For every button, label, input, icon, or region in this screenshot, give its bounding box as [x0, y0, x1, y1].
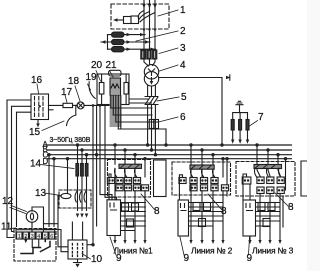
control fuse 17 [63, 103, 73, 107]
svg-text:13: 13 [35, 188, 47, 199]
wire: link to meter box 9 [179, 175, 182, 200]
section rectangle R1 [154, 160, 167, 197]
svg-text:8: 8 [154, 206, 160, 217]
meter 12 [26, 211, 38, 223]
left control wires [7, 100, 31, 238]
CT window slits [143, 52, 155, 58]
line 1 outgoing arrows [113, 240, 146, 244]
lamp 18 [77, 102, 84, 109]
breaker bar [119, 164, 142, 168]
current transformers 3 [141, 50, 157, 59]
svg-text:10: 10 [91, 254, 103, 265]
svg-text:18: 18 [68, 76, 80, 87]
wire: three primary feeders [144, 7, 155, 50]
wire into transformer [144, 59, 155, 66]
wire: line 2 outgoing [191, 184, 223, 241]
bus labels [43, 140, 49, 166]
svg-text:Линия № 2: Линия № 2 [191, 246, 233, 256]
terminals 1-6 [17, 232, 55, 239]
disconnector blades [138, 11, 155, 22]
wire rungs line 2 [189, 203, 224, 227]
arrow in LV winding [151, 78, 153, 82]
relay cabinet 16 [31, 94, 49, 120]
neutral drop [67, 159, 69, 194]
meter box 9 [178, 200, 189, 236]
power transformer T1 [144, 65, 158, 79]
plug arrows below box [142, 29, 156, 33]
wires panel 11 to block 10 [72, 222, 82, 240]
meter box 9 [243, 200, 256, 236]
star symbol [148, 69, 154, 76]
line 2 switch bar [190, 165, 214, 169]
surge arresters 7: ground [236, 101, 243, 112]
svg-text:21: 21 [106, 60, 118, 71]
line 2 outgoing arrows [189, 240, 224, 244]
fuse row 2 [257, 187, 264, 194]
panel 11 dashed box [14, 229, 56, 262]
resistor 20 [99, 83, 104, 95]
left link to meter box [109, 174, 111, 200]
fuse row 2 [190, 185, 197, 191]
svg-text:4: 4 [180, 60, 186, 71]
contact brackets line 3 [258, 203, 265, 211]
switch blade 19 [89, 82, 95, 99]
drops from buses [115, 145, 145, 177]
wire: link to meter box 9 [243, 174, 247, 200]
wires below fuses 14 [78, 176, 87, 211]
resistor right [124, 83, 128, 95]
fuse dots [108, 179, 148, 189]
fuse link 13 [61, 193, 71, 198]
svg-text:12: 12 [2, 196, 14, 207]
wire: blade stems [191, 169, 213, 177]
svg-text:8: 8 [288, 202, 294, 213]
line 3 cubicle (dashed) [236, 162, 295, 197]
lighting drops to panel 11 [49, 155, 54, 227]
voltage transformer cubicle 20/21 [97, 74, 129, 105]
wire: branch to right [159, 78, 222, 146]
line 3 outgoing arrows [248, 240, 281, 244]
ground arrow in 11 [25, 237, 27, 240]
wire from mesh to bus A [165, 129, 167, 145]
fuse row 2 [116, 185, 123, 191]
fuse 21 cap [109, 70, 121, 76]
fuse row 2c [108, 47, 156, 52]
wire: blade stems [115, 168, 135, 177]
svg-text:17: 17 [61, 87, 73, 98]
switch blade 15 [67, 115, 77, 126]
arrester F3 [246, 120, 249, 131]
disconnector jaw blocks [131, 16, 139, 24]
fuse row 1 [107, 178, 114, 184]
svg-text:5: 5 [181, 92, 187, 103]
svg-text:Линия №1: Линия №1 [114, 246, 153, 256]
fuse truck lead 2 [101, 35, 108, 50]
arrester header wire [233, 113, 248, 120]
wire rungs line 3 [256, 203, 281, 227]
svg-text:3: 3 [180, 43, 186, 54]
contact brackets line 2 [193, 203, 200, 211]
terminal numbers [18, 234, 54, 240]
line 3 switch bar [254, 165, 282, 169]
svg-text:8: 8 [221, 206, 227, 217]
busbars A B C D [48, 145, 292, 159]
wire bundle below 21 [110, 96, 122, 128]
meter box 9 [107, 200, 121, 236]
outgoing wires [115, 184, 145, 241]
svg-text:15: 15 [29, 127, 41, 138]
wire: line 3 outgoing [250, 184, 280, 241]
svg-text:D: D [43, 157, 49, 166]
fuse row 1 [242, 177, 251, 184]
contact brackets [122, 203, 129, 211]
fuse row 1 [179, 178, 186, 184]
wire below breaker [148, 105, 156, 155]
ground under 10 [74, 259, 82, 263]
fuses 14 [76, 164, 79, 177]
svg-text:7: 7 [258, 112, 264, 123]
svg-text:6: 6 [50, 234, 53, 240]
svg-text:20: 20 [91, 60, 103, 71]
wire: line 2 drops from buses [191, 145, 223, 177]
rungs [121, 203, 146, 231]
svg-text:1: 1 [18, 234, 21, 240]
section rectangle R3 (cut) [301, 161, 307, 196]
terminal strip outline [16, 230, 55, 239]
incoming line arrows [142, 0, 156, 9]
svg-text:2: 2 [180, 26, 186, 37]
fuse row 2b [108, 39, 151, 44]
wire: LV risers [148, 86, 156, 96]
circuit breaker 5 [145, 97, 158, 105]
line 2 switch blades [191, 169, 215, 177]
wire 16 to fuse 17 [49, 104, 64, 106]
svg-text:11: 11 [1, 222, 12, 233]
fuse row 2a [108, 32, 146, 37]
disconnector cell (dashed box) U1 [111, 4, 169, 29]
arrester F1 [231, 120, 234, 131]
line 2 cubicle (dashed) [172, 162, 231, 195]
fuse 21 body [110, 78, 121, 96]
measuring wires mesh [111, 108, 166, 129]
dashed cell [108, 160, 151, 198]
switch 13 dashed box [59, 190, 91, 208]
arrester F2 [239, 120, 242, 131]
wire right of feeder 2 [226, 159, 228, 196]
wire: right side drop [282, 196, 284, 227]
ground arrow under 16 [37, 120, 39, 125]
svg-text:9: 9 [184, 253, 190, 264]
current transformers 6 [149, 120, 154, 129]
earthing block 10 [68, 240, 87, 259]
svg-text:16: 16 [31, 75, 43, 86]
wire: line 3 drops from buses [257, 145, 286, 190]
wire mesh down to line 1 panel [93, 105, 97, 244]
svg-text:19: 19 [86, 72, 98, 83]
svg-text:14: 14 [30, 159, 42, 170]
arrester leads to bus [233, 130, 248, 140]
svg-text:Линия № 3: Линия № 3 [252, 246, 294, 256]
svg-text:6: 6 [180, 112, 186, 123]
svg-text:1: 1 [180, 5, 186, 16]
lighting feeder taps [78, 145, 87, 164]
svg-text:3~50Гц 380В: 3~50Гц 380В [50, 137, 91, 144]
blades [115, 168, 137, 176]
switch in 11 [32, 239, 39, 248]
